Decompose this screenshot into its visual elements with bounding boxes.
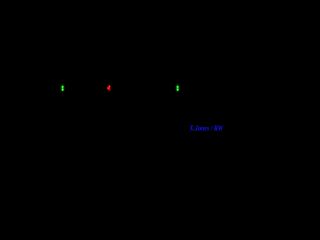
green LED 1 xyxy=(60,83,66,93)
red LED xyxy=(106,83,112,92)
green LED 2 xyxy=(175,83,181,93)
svg-text:X.Jones / RW: X.Jones / RW xyxy=(189,124,224,133)
